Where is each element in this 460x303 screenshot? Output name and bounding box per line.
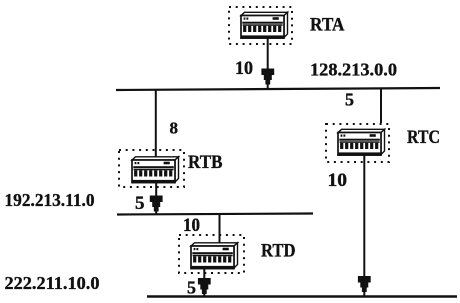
svg-text:5: 5 [135,193,145,214]
svg-text:10: 10 [235,59,253,79]
svg-text:10: 10 [183,216,200,236]
svg-text:192.213.11.0: 192.213.11.0 [5,190,95,210]
svg-text:222.211.10.0: 222.211.10.0 [5,273,100,293]
svg-text:RTC: RTC [407,127,440,148]
svg-text:128.213.0.0: 128.213.0.0 [310,60,397,80]
svg-text:RTA: RTA [310,15,345,36]
svg-text:RTD: RTD [261,241,296,262]
svg-text:5: 5 [345,90,354,110]
svg-text:RTB: RTB [188,152,223,173]
svg-text:8: 8 [170,119,179,138]
svg-text:5: 5 [187,278,196,298]
svg-text:10: 10 [328,171,348,191]
